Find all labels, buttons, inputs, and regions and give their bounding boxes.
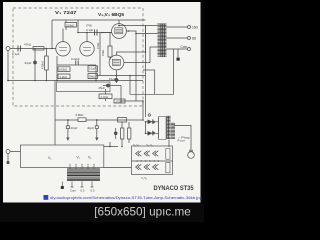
terminal 16 ohm — [188, 26, 191, 29]
node coupling out — [101, 32, 103, 34]
capacitor C4 33uF cathode — [34, 49, 36, 81]
svg-text:16Ω: 16Ω — [192, 26, 199, 30]
svg-text:2.7kΩ: 2.7kΩ — [101, 95, 108, 99]
heater resistor row2 — [166, 162, 170, 173]
B+ rail wire — [52, 19, 146, 21]
svg-text:6.3: 6.3 — [91, 188, 95, 192]
resistor R2 100k plate — [65, 23, 77, 28]
svg-text:Fuse: Fuse — [178, 138, 186, 142]
wire pcb drop — [54, 81, 56, 146]
resistor R6 0.1uF box — [88, 66, 98, 72]
resistor R13 bias — [127, 128, 130, 139]
svg-text:25μF: 25μF — [99, 86, 106, 90]
wire secondary 8 ohm tap — [167, 37, 188, 39]
capacitor C8 40uF — [96, 120, 98, 138]
T2 taps down — [72, 182, 92, 188]
wire secondary com tap — [167, 48, 188, 50]
ground T2 — [61, 186, 64, 189]
resistor R7 39k — [88, 74, 98, 79]
ground bus wire — [8, 80, 143, 82]
svg-text:16μF: 16μF — [109, 77, 116, 81]
svg-text:V₂,V₃ 6BQ5: V₂,V₃ 6BQ5 — [98, 12, 124, 18]
node cathode line — [129, 75, 131, 77]
svg-text:100kΩ: 100kΩ — [59, 68, 67, 72]
ground arrow c8 — [95, 138, 98, 141]
wire cathode line right — [96, 75, 146, 77]
pentode V2 6BQ5 — [112, 24, 127, 39]
wire secondary ground — [177, 49, 179, 57]
node V2 anode — [118, 25, 120, 27]
capacitor C9 bias — [114, 132, 117, 135]
node R8 bottom — [46, 80, 48, 82]
wire block to heater — [104, 142, 132, 168]
svg-text:15kΩ: 15kΩ — [101, 50, 105, 56]
wire V2 anode to OPT — [118, 20, 120, 24]
node C4 bottom — [34, 80, 36, 82]
resistor R9 2.7k — [99, 94, 112, 99]
T2 tap pin dots — [70, 163, 95, 165]
resistor R10 6.8k PS — [78, 118, 86, 122]
wire V3 cathode down — [116, 70, 118, 76]
node C4 top — [34, 48, 36, 50]
svg-text:6.3: 6.3 — [81, 188, 85, 192]
node bus pcb — [56, 80, 58, 82]
svg-text:V₁ 7247: V₁ 7247 — [55, 10, 77, 16]
node bias drop — [121, 146, 123, 148]
node bus right — [95, 80, 97, 82]
wire PT bottom — [168, 140, 170, 147]
svg-text:47kΩ: 47kΩ — [24, 43, 32, 47]
capacitor C7 20uF — [67, 120, 69, 138]
svg-text:39kΩ: 39kΩ — [89, 75, 96, 79]
ground sec — [177, 58, 180, 61]
wire grid return — [99, 33, 101, 76]
PT winding hatch — [159, 116, 176, 140]
node grid junction — [51, 48, 53, 50]
capacitor C5 16uF — [116, 76, 118, 84]
node PT lead — [168, 145, 170, 147]
wire input to grid — [10, 48, 56, 50]
svg-text:1.2kΩ: 1.2kΩ — [60, 75, 67, 79]
resistor R8 470k vertical — [45, 56, 49, 70]
AC terminal 2 — [7, 161, 9, 163]
photo white background — [3, 2, 201, 203]
terminal PT top — [148, 114, 150, 116]
wire shield ground drop — [7, 51, 9, 81]
wire diode1 — [146, 121, 159, 123]
svg-text:0.22μF: 0.22μF — [71, 57, 80, 61]
node R8 top — [46, 48, 48, 50]
wire bias net — [106, 76, 144, 102]
heater resistor row1 — [166, 149, 170, 160]
svg-text:V₂ V₃: V₂ V₃ — [133, 143, 139, 147]
plug P1 — [188, 152, 195, 159]
node D1 anode — [145, 121, 147, 123]
node bias line — [120, 100, 122, 102]
wire bias caps — [122, 122, 129, 147]
svg-text:Com: Com — [70, 188, 77, 192]
resistor R12 bias — [121, 128, 124, 139]
wire PT to plug — [174, 125, 191, 151]
capacitor C3 0.22uF — [76, 61, 78, 65]
triode V1b — [80, 42, 94, 56]
node V1b plate — [86, 32, 88, 34]
ground arrow c7 — [66, 138, 69, 141]
input jack J1 — [6, 47, 10, 51]
svg-text:(7W): (7W) — [86, 24, 92, 28]
node C7 top — [67, 119, 69, 121]
svg-text:470kΩ: 470kΩ — [41, 61, 45, 69]
power transformer T2 main — [61, 164, 100, 189]
PC-13 board box — [57, 82, 111, 92]
resistor R14 270 ohm — [114, 99, 125, 103]
bottom black bar — [0, 203, 204, 223]
AC terminal 1 — [6, 150, 10, 154]
wire feedback — [143, 49, 174, 94]
svg-text:470Ω: 470Ω — [96, 43, 100, 49]
svg-text:V₁ V₄: V₁ V₄ — [141, 176, 147, 180]
capacitor C6 25uF — [103, 85, 121, 87]
terminal com — [188, 48, 191, 51]
heater chevrons row2 — [136, 164, 142, 169]
node C8 top — [96, 119, 98, 121]
svg-text:0.1μF: 0.1μF — [89, 67, 96, 71]
wire cathode bus v1 — [57, 56, 96, 81]
svg-text:0.1μF: 0.1μF — [12, 52, 20, 56]
wire V2 grid — [102, 32, 112, 34]
wire screen tap — [143, 70, 155, 94]
wire diode2 — [146, 122, 159, 134]
power transformer PT primary left — [158, 117, 160, 139]
svg-text:8Ω: 8Ω — [192, 37, 197, 41]
capacitor C2 0.1uF coupling — [95, 30, 98, 36]
svg-text:DYNACO ST35: DYNACO ST35 — [154, 185, 195, 192]
node heater feed — [109, 146, 111, 148]
node V3 anode rail — [145, 51, 147, 53]
resistor R1 47k — [33, 47, 44, 50]
capacitor C1 0.1uF — [18, 46, 21, 52]
heater box — [132, 146, 173, 175]
wire V1a anode — [62, 29, 64, 42]
resistor R3 15k vertical — [108, 46, 112, 57]
T2 taps up — [70, 165, 94, 169]
wire V2 screen to OPT — [126, 31, 157, 34]
triode V1a — [56, 42, 70, 56]
wire plate feed V1b — [77, 20, 79, 33]
svg-text:Com: Com — [181, 45, 188, 49]
node bias border — [142, 100, 144, 102]
svg-text:V₅ V₆: V₅ V₆ — [147, 143, 153, 147]
wire grid V3 — [109, 33, 111, 61]
heater divider — [132, 160, 173, 162]
channel B block — [21, 145, 104, 168]
wire B+ to OPT CT — [145, 26, 147, 118]
terminal 8 ohm — [188, 37, 191, 40]
svg-text:6.8kΩ: 6.8kΩ — [76, 113, 85, 117]
node V3 cathode — [116, 75, 118, 77]
svg-text:[650x650] upıc.me: [650x650] upıc.me — [94, 205, 191, 219]
node screen bus — [135, 33, 137, 35]
resistor R4 100k — [58, 67, 70, 72]
wire B+ filter line — [55, 101, 143, 120]
T2 terminal arrows — [71, 186, 94, 188]
dashed chassis border — [13, 8, 143, 106]
node D2 anode — [145, 133, 147, 135]
node V1b plate feed — [77, 32, 79, 34]
diode D1 — [148, 120, 153, 125]
wire secondary 16 ohm tap — [167, 26, 188, 28]
wire V1b plate to coupling — [78, 33, 112, 42]
resistor R5 1.2k — [58, 74, 70, 79]
node input ground — [7, 80, 9, 82]
node B+ filter — [142, 119, 144, 121]
svg-text:33μF: 33μF — [25, 61, 32, 65]
svg-text:20μF: 20μF — [71, 126, 78, 130]
link icon — [44, 195, 49, 200]
heater chevrons row1 — [136, 149, 170, 173]
svg-text:270Ω: 270Ω — [116, 99, 123, 103]
node heater divider joints — [137, 160, 160, 161]
wire V3 anode to OPT — [117, 26, 146, 56]
svg-text:0.1μF: 0.1μF — [86, 28, 93, 32]
output transformer T1 winding hatch — [158, 24, 167, 58]
svg-text:diy.audioprojects.com/Schemati: diy.audioprojects.com/Schematics/Dynaco-… — [50, 195, 202, 200]
diode D2 — [148, 131, 153, 136]
node V2 screen — [128, 30, 130, 32]
svg-text:40μF: 40μF — [87, 126, 94, 130]
pentode V3 6BQ5 — [109, 55, 124, 70]
wire screen supply drop — [135, 34, 137, 102]
wire grid loop vertical — [51, 20, 53, 49]
wire ac — [8, 152, 21, 162]
svg-text:100kΩ: 100kΩ — [66, 23, 74, 27]
resistor R11 6.8k second — [118, 118, 127, 123]
wire V3 screen to OPT — [124, 47, 158, 63]
